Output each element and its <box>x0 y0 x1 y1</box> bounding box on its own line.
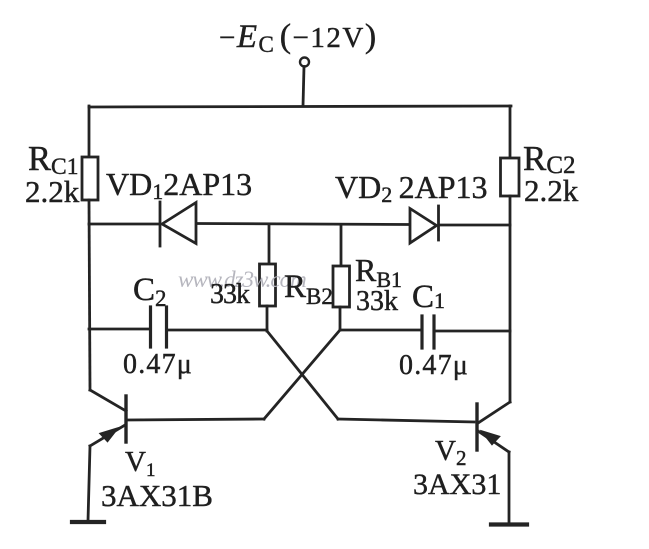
transistor V1 <box>90 390 126 446</box>
ground left <box>72 520 104 524</box>
wire V1 emitter drop <box>88 446 90 521</box>
svg-text:0.47μ: 0.47μ <box>123 349 193 380</box>
svg-text:0.47μ: 0.47μ <box>399 350 469 381</box>
svg-text:VD12AP13: VD12AP13 <box>106 166 252 204</box>
svg-text:2.2k: 2.2k <box>524 173 579 208</box>
wire C2 left lead <box>89 328 150 331</box>
svg-text:−EC (−12V): −EC (−12V) <box>219 18 378 57</box>
wire C1 left lead <box>340 329 421 332</box>
capacitor C1 <box>422 316 434 348</box>
wire V1 base <box>126 419 264 420</box>
wire left rail lower <box>89 200 90 390</box>
wire C2 right lead / node A <box>167 329 267 332</box>
resistor RB1 <box>333 266 350 307</box>
capacitor C2 <box>151 307 167 347</box>
ground right <box>491 522 527 526</box>
power terminal -Ec <box>300 58 309 67</box>
wire RB2 bottom lead <box>266 306 269 331</box>
resistor RC1 <box>82 157 98 200</box>
wire right rail upper <box>509 106 512 158</box>
wire V2 emitter drop <box>508 452 511 523</box>
wire left rail upper <box>88 106 91 157</box>
wire mid rail center <box>197 224 409 225</box>
wire C1 right lead <box>435 330 510 333</box>
wire RB2 top lead <box>268 224 271 264</box>
resistor RB2 <box>260 264 276 306</box>
wire terminal drop <box>303 67 304 107</box>
wire mid rail left <box>89 223 159 226</box>
wire cross coupling A to V2 base <box>267 331 338 419</box>
wire RB1 top lead <box>340 225 343 267</box>
wire RB1 bottom lead <box>339 307 342 330</box>
diode VD2 <box>410 206 439 243</box>
wire right rail lower <box>509 196 512 402</box>
svg-text:3AX31B: 3AX31B <box>101 478 213 513</box>
svg-text:2.2k: 2.2k <box>25 174 80 209</box>
diode VD1 <box>160 202 196 246</box>
svg-text:VD2 2AP13: VD2 2AP13 <box>335 169 488 207</box>
svg-text:3AX31: 3AX31 <box>413 468 501 501</box>
svg-text:33k: 33k <box>356 286 398 317</box>
transistor V2 <box>477 402 510 452</box>
svg-text:33k: 33k <box>210 279 250 310</box>
wire top rail <box>89 106 511 107</box>
resistor RC2 <box>501 158 520 196</box>
wire mid rail right <box>439 224 510 227</box>
wire V2 base <box>338 419 474 422</box>
wire cross coupling B to V1 base <box>264 330 340 419</box>
